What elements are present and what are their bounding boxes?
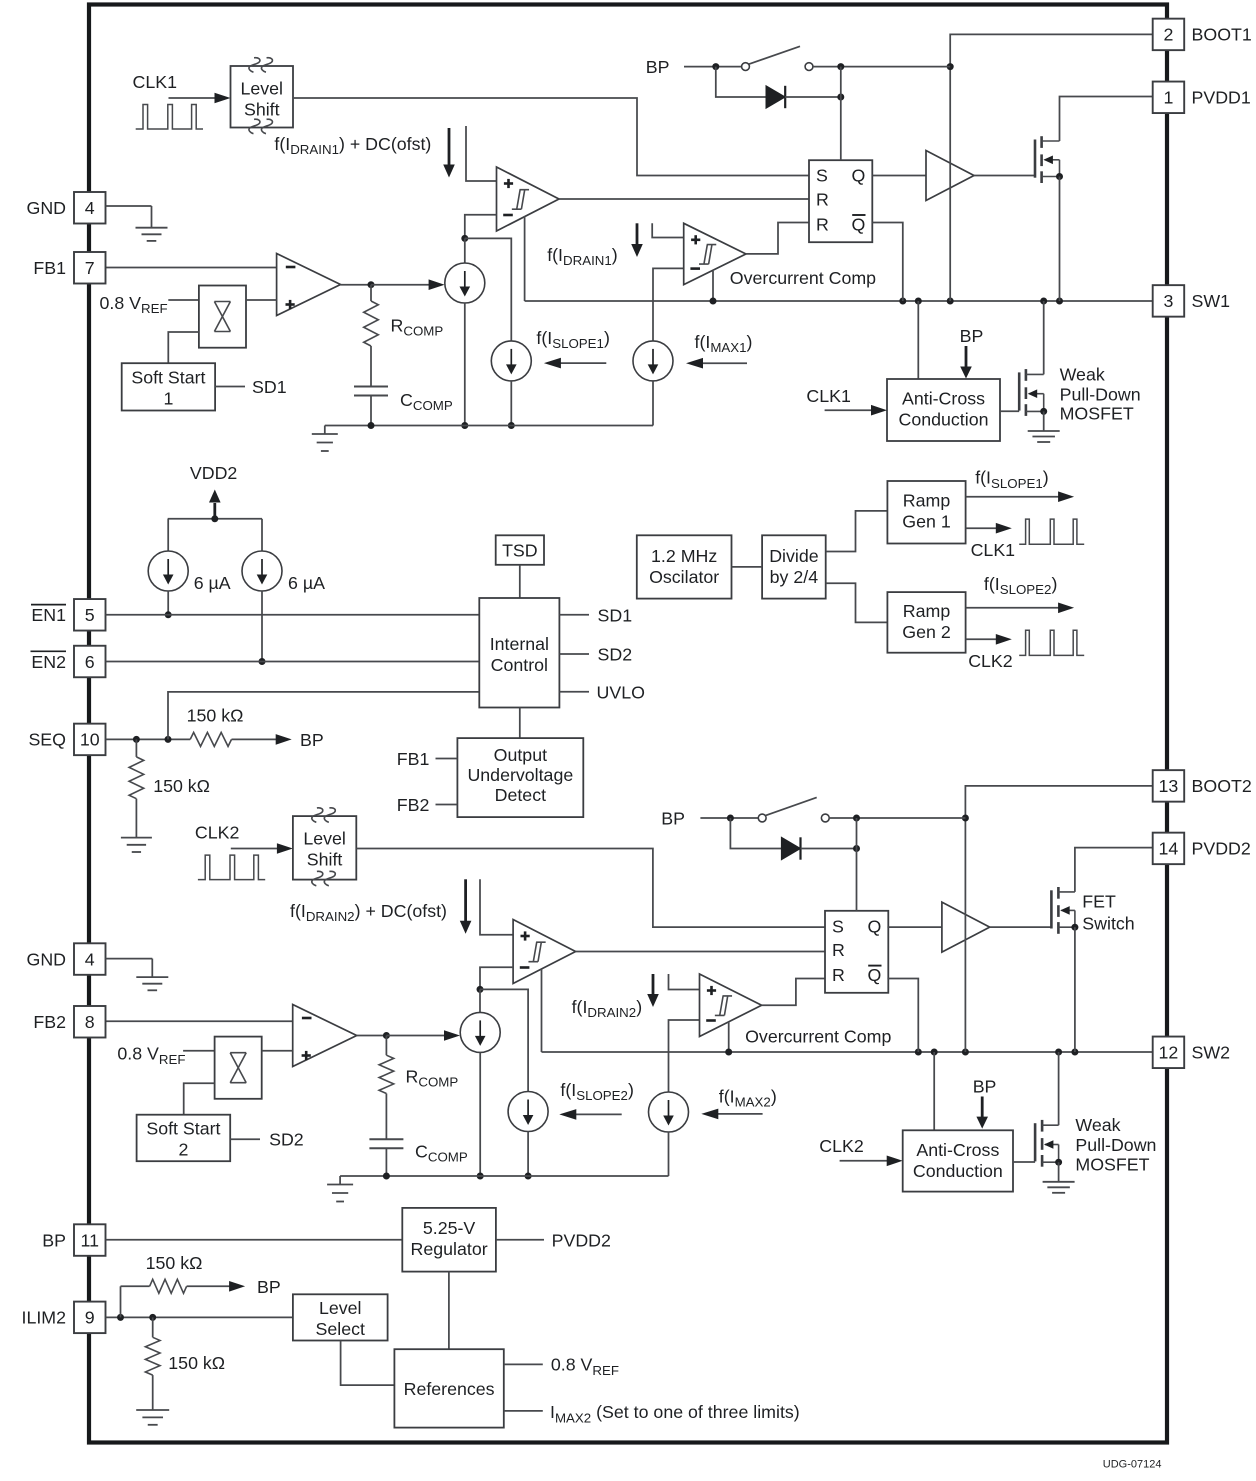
svg-text:Weak: Weak (1060, 365, 1105, 385)
svg-text:UDG-07124: UDG-07124 (1103, 1459, 1162, 1471)
svg-text:11: 11 (81, 1230, 100, 1250)
svg-text:CLK2: CLK2 (195, 823, 239, 843)
svg-text:BP: BP (646, 57, 670, 77)
svg-text:Shift: Shift (244, 100, 280, 120)
svg-text:14: 14 (1159, 839, 1179, 859)
svg-text:FB2: FB2 (397, 795, 430, 815)
svg-text:S: S (832, 916, 844, 936)
svg-text:MOSFET: MOSFET (1075, 1154, 1149, 1174)
svg-text:6: 6 (85, 652, 95, 672)
svg-text:2: 2 (178, 1140, 188, 1160)
svg-text:S: S (816, 166, 828, 186)
svg-text:SD1: SD1 (252, 377, 287, 397)
svg-text:150 kΩ: 150 kΩ (146, 1253, 203, 1273)
svg-text:SW1: SW1 (1192, 291, 1231, 311)
svg-text:FB1: FB1 (33, 258, 66, 278)
svg-text:GND: GND (26, 949, 66, 969)
svg-text:Q: Q (851, 215, 865, 235)
svg-text:GND: GND (26, 198, 66, 218)
svg-text:FET: FET (1082, 891, 1116, 911)
svg-text:PVDD1: PVDD1 (1192, 88, 1251, 108)
svg-text:2: 2 (1164, 25, 1174, 45)
svg-text:BP: BP (257, 1277, 281, 1297)
svg-text:Conduction: Conduction (899, 410, 989, 430)
svg-text:ILIM2: ILIM2 (22, 1308, 66, 1328)
svg-text:Level: Level (319, 1298, 362, 1318)
svg-text:Pull-Down: Pull-Down (1075, 1135, 1156, 1155)
svg-text:Oscilator: Oscilator (649, 567, 719, 587)
svg-text:Control: Control (491, 655, 548, 675)
svg-text:CLK1: CLK1 (806, 386, 851, 406)
svg-text:150 kΩ: 150 kΩ (153, 776, 210, 796)
svg-text:150 kΩ: 150 kΩ (187, 706, 244, 726)
svg-text:Overcurrent Comp: Overcurrent Comp (745, 1027, 891, 1047)
svg-text:Output: Output (494, 745, 547, 765)
svg-text:Undervoltage: Undervoltage (467, 765, 573, 785)
svg-text:Select: Select (316, 1319, 365, 1339)
svg-text:EN2: EN2 (31, 652, 66, 672)
svg-text:Pull-Down: Pull-Down (1060, 384, 1141, 404)
svg-text:SW2: SW2 (1192, 1043, 1231, 1063)
svg-text:FB2: FB2 (33, 1012, 66, 1032)
svg-text:3: 3 (1164, 291, 1174, 311)
svg-text:CLK2: CLK2 (968, 651, 1012, 671)
svg-text:BOOT1: BOOT1 (1192, 25, 1252, 45)
svg-text:Switch: Switch (1082, 913, 1134, 933)
svg-text:PVDD2: PVDD2 (552, 1230, 611, 1250)
svg-text:CLK1: CLK1 (971, 540, 1016, 560)
svg-text:CLK1: CLK1 (133, 72, 178, 92)
svg-text:TSD: TSD (502, 541, 538, 561)
svg-text:Ramp: Ramp (903, 601, 951, 621)
svg-text:References: References (404, 1379, 495, 1399)
svg-text:Weak: Weak (1075, 1115, 1120, 1135)
svg-text:13: 13 (1159, 776, 1179, 796)
svg-text:EN1: EN1 (31, 605, 66, 625)
svg-text:4: 4 (85, 198, 95, 218)
svg-text:BP: BP (973, 1076, 997, 1096)
svg-text:Anti-Cross: Anti-Cross (916, 1140, 999, 1160)
svg-text:Detect: Detect (495, 785, 546, 805)
svg-text:Soft Start: Soft Start (146, 1119, 220, 1139)
svg-text:Gen 1: Gen 1 (902, 512, 951, 532)
svg-text:SEQ: SEQ (28, 730, 66, 750)
svg-text:Divide: Divide (769, 546, 819, 566)
svg-text:SD1: SD1 (598, 605, 633, 625)
svg-text:R: R (832, 965, 845, 985)
svg-text:PVDD2: PVDD2 (1192, 839, 1251, 859)
svg-text:MOSFET: MOSFET (1060, 404, 1134, 424)
svg-text:Level: Level (240, 79, 283, 99)
svg-text:SD2: SD2 (598, 645, 633, 665)
svg-text:Regulator: Regulator (411, 1239, 488, 1259)
svg-text:by 2/4: by 2/4 (770, 567, 819, 587)
svg-text:Internal: Internal (490, 634, 549, 654)
svg-text:12: 12 (1159, 1043, 1179, 1063)
svg-text:Q: Q (851, 166, 865, 186)
svg-text:Anti-Cross: Anti-Cross (902, 389, 985, 409)
svg-text:5: 5 (85, 605, 95, 625)
svg-text:R: R (832, 940, 845, 960)
svg-text:R: R (816, 190, 829, 210)
svg-text:4: 4 (85, 949, 95, 969)
svg-text:SD2: SD2 (269, 1130, 304, 1150)
svg-text:CLK2: CLK2 (819, 1136, 863, 1156)
svg-text:UVLO: UVLO (597, 682, 645, 702)
svg-text:8: 8 (85, 1012, 95, 1032)
svg-text:10: 10 (80, 730, 100, 750)
svg-text:Soft Start: Soft Start (131, 368, 205, 388)
svg-text:1: 1 (1164, 88, 1174, 108)
svg-text:Q: Q (867, 916, 881, 936)
svg-text:Gen 2: Gen 2 (902, 622, 950, 642)
svg-text:5.25-V: 5.25-V (423, 1218, 476, 1238)
svg-text:Shift: Shift (307, 850, 343, 870)
svg-text:BP: BP (300, 730, 324, 750)
svg-text:R: R (816, 215, 829, 235)
svg-text:Level: Level (303, 829, 346, 849)
svg-text:Overcurrent Comp: Overcurrent Comp (730, 268, 876, 288)
svg-text:9: 9 (85, 1308, 95, 1328)
svg-text:FB1: FB1 (397, 749, 430, 769)
svg-text:BP: BP (42, 1230, 66, 1250)
svg-text:Q: Q (867, 965, 881, 985)
svg-text:VDD2: VDD2 (190, 463, 237, 483)
svg-text:1.2 MHz: 1.2 MHz (651, 546, 717, 566)
svg-text:Conduction: Conduction (913, 1161, 1003, 1181)
svg-text:BOOT2: BOOT2 (1192, 776, 1252, 796)
svg-text:7: 7 (85, 258, 95, 278)
svg-text:1: 1 (163, 389, 173, 409)
svg-text:6 µA: 6 µA (288, 573, 325, 593)
svg-text:Ramp: Ramp (903, 491, 951, 511)
svg-text:BP: BP (960, 326, 984, 346)
svg-text:BP: BP (661, 808, 685, 828)
svg-text:150 kΩ: 150 kΩ (168, 1353, 225, 1373)
svg-text:6 µA: 6 µA (194, 573, 231, 593)
